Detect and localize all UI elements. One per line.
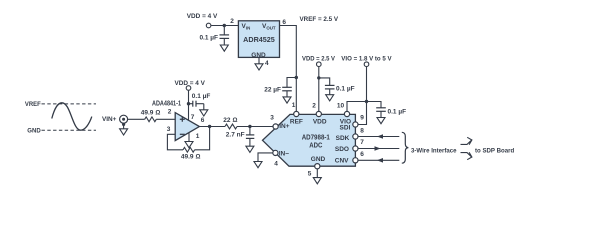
wire VIN+ to resistor — [128, 118, 145, 120]
ground at op-amp supply cap — [200, 110, 208, 116]
wire IN- to ground — [258, 153, 273, 162]
pin circle IN+ — [273, 124, 278, 129]
svg-text:IN−: IN− — [279, 150, 290, 157]
ADR pin 4 lead — [258, 57, 260, 63]
svg-text:CNV: CNV — [335, 158, 349, 165]
pin circle SDI — [353, 122, 358, 127]
svg-text:3: 3 — [167, 126, 171, 133]
wire op-amp output — [199, 126, 225, 128]
junction output node — [208, 125, 211, 128]
svg-text:SDK: SDK — [336, 135, 350, 142]
wire ADR VOUT to REF node — [280, 26, 297, 112]
svg-text:8: 8 — [360, 127, 364, 134]
svg-text:GND: GND — [311, 156, 326, 163]
svg-text:0.1 µF: 0.1 µF — [388, 108, 407, 115]
wire VIO node to SDI pin 9 — [358, 102, 367, 125]
wire SDO interface — [358, 148, 399, 150]
svg-text:2: 2 — [230, 18, 234, 25]
wire VDD terminal to ADC pin 2 — [318, 67, 320, 112]
ground at ADR input cap — [220, 45, 228, 51]
ground at IN- — [254, 162, 262, 168]
svg-text:9: 9 — [360, 115, 364, 122]
svg-text:2: 2 — [168, 108, 172, 115]
svg-text:SDO: SDO — [335, 146, 349, 153]
svg-text:1: 1 — [196, 133, 200, 140]
ground at ADC VDD cap — [326, 95, 334, 101]
pin circle REF — [294, 111, 299, 116]
terminal VDD op-amp — [186, 86, 191, 91]
ground at ADR pin 4 — [255, 64, 263, 70]
terminal VIO — [364, 62, 369, 67]
wire ADC GND pin 5 — [316, 169, 318, 178]
wire 22 ohm to ADC IN+ — [237, 126, 273, 128]
wire CNV interface — [358, 159, 399, 161]
junction ADR input — [223, 24, 226, 27]
voltage reference U2 ADR4525 box — [238, 21, 279, 58]
pin circle IN- — [273, 150, 278, 155]
pin circle VDD — [316, 111, 321, 116]
arrow into SCK — [377, 134, 383, 139]
svg-text:VIN+: VIN+ — [102, 116, 116, 123]
pin circle CNV — [353, 158, 358, 163]
svg-text:4: 4 — [274, 160, 278, 167]
svg-text:10: 10 — [337, 102, 345, 109]
svg-text:6: 6 — [201, 117, 205, 124]
svg-text:IN+: IN+ — [279, 123, 290, 130]
junction ADC VDD — [317, 76, 320, 79]
svg-text:22 Ω: 22 Ω — [223, 117, 237, 124]
svg-text:7: 7 — [360, 139, 364, 146]
bidirectional link symbol — [461, 137, 472, 144]
ground at 22uF — [283, 97, 291, 103]
svg-text:SDI: SDI — [340, 124, 351, 131]
terminal VIN+ — [120, 115, 128, 123]
pin circle SDO — [353, 146, 358, 151]
svg-text:VREF = 2.5 V: VREF = 2.5 V — [300, 16, 339, 23]
terminal VDD 2.5V — [317, 62, 322, 67]
svg-text:0.1 µF: 0.1 µF — [199, 34, 218, 41]
svg-text:2.7 nF: 2.7 nF — [226, 131, 245, 138]
svg-text:VREF: VREF — [25, 101, 41, 108]
junction op-amp supply — [187, 102, 190, 105]
wire resistor to op-amp pin 2 — [156, 118, 175, 120]
svg-text:REF: REF — [290, 118, 303, 125]
svg-text:VDD: VDD — [313, 118, 327, 125]
svg-text:6: 6 — [360, 151, 364, 158]
junction RC filter node — [248, 125, 251, 128]
junction REF node — [295, 76, 298, 79]
svg-text:3-Wire Interface: 3-Wire Interface — [411, 147, 457, 154]
svg-text:0.1 µF: 0.1 µF — [336, 85, 355, 92]
junction VIN+ shield — [122, 123, 125, 126]
pin circle GND — [315, 164, 320, 169]
svg-text:7: 7 — [191, 114, 195, 121]
wire VDD terminal to ADR4525 VIN — [211, 25, 238, 27]
node VREF dashed level line — [42, 103, 97, 105]
wire feedback from pin 3 — [167, 134, 183, 150]
svg-text:AD7988-1: AD7988-1 — [302, 135, 330, 142]
input sine waveform — [52, 103, 92, 130]
resistor 49.9 ohm feedback — [183, 147, 195, 152]
svg-text:22 µF: 22 µF — [264, 86, 281, 93]
junction VIO node — [365, 100, 368, 103]
wire op-amp pin 1 to ground — [188, 133, 190, 142]
ground at ADC GND — [313, 178, 321, 184]
svg-text:VDD = 4 V: VDD = 4 V — [187, 13, 218, 20]
svg-text:6: 6 — [282, 19, 286, 26]
ground at VIN+ terminal — [120, 129, 128, 135]
pin circle VIO — [344, 111, 349, 116]
ground at 2.7nF — [246, 146, 254, 152]
svg-text:ADA4841-1: ADA4841-1 — [152, 101, 181, 108]
svg-text:0.1 µF: 0.1 µF — [192, 93, 211, 100]
svg-text:49.9 Ω: 49.9 Ω — [181, 153, 200, 160]
terminal VDD ADR4525 — [206, 23, 211, 28]
svg-text:5: 5 — [308, 171, 312, 178]
svg-text:3: 3 — [270, 114, 274, 121]
ADC U3 AD7988-1 body — [263, 114, 356, 166]
svg-text:GND: GND — [27, 127, 40, 134]
svg-text:4: 4 — [265, 60, 269, 67]
svg-text:2: 2 — [312, 102, 316, 109]
node GND dashed level line — [42, 129, 97, 131]
ground at op-amp pin 1 — [185, 142, 193, 148]
pin circle SCK — [353, 134, 358, 139]
wire VIO terminal down — [366, 67, 368, 102]
svg-text:VDD = 2.5 V: VDD = 2.5 V — [302, 55, 335, 62]
svg-text:1: 1 — [292, 102, 296, 109]
arrow into CNV — [377, 158, 383, 163]
wire feedback to output node — [195, 127, 210, 150]
svg-text:ADC: ADC — [309, 143, 322, 150]
wire VDD terminal to op-amp pin 7 — [188, 91, 190, 121]
ground at VIO cap — [377, 118, 385, 124]
wire SCK interface — [358, 136, 399, 138]
op-amp U1 ADA4841-1 triangle — [175, 113, 199, 141]
arrow out of SDO — [375, 146, 381, 151]
svg-text:to SDP Board: to SDP Board — [475, 147, 514, 154]
svg-text:ADR4525: ADR4525 — [243, 37, 275, 44]
svg-text:VIO = 1.8 V to 5 V: VIO = 1.8 V to 5 V — [341, 55, 392, 62]
svg-text:49.9 Ω: 49.9 Ω — [141, 110, 160, 117]
wire VIN+ terminal to ground — [123, 123, 125, 129]
brace 3-wire group — [402, 132, 409, 163]
wire VIO node to ADC pin 10 — [347, 102, 367, 112]
